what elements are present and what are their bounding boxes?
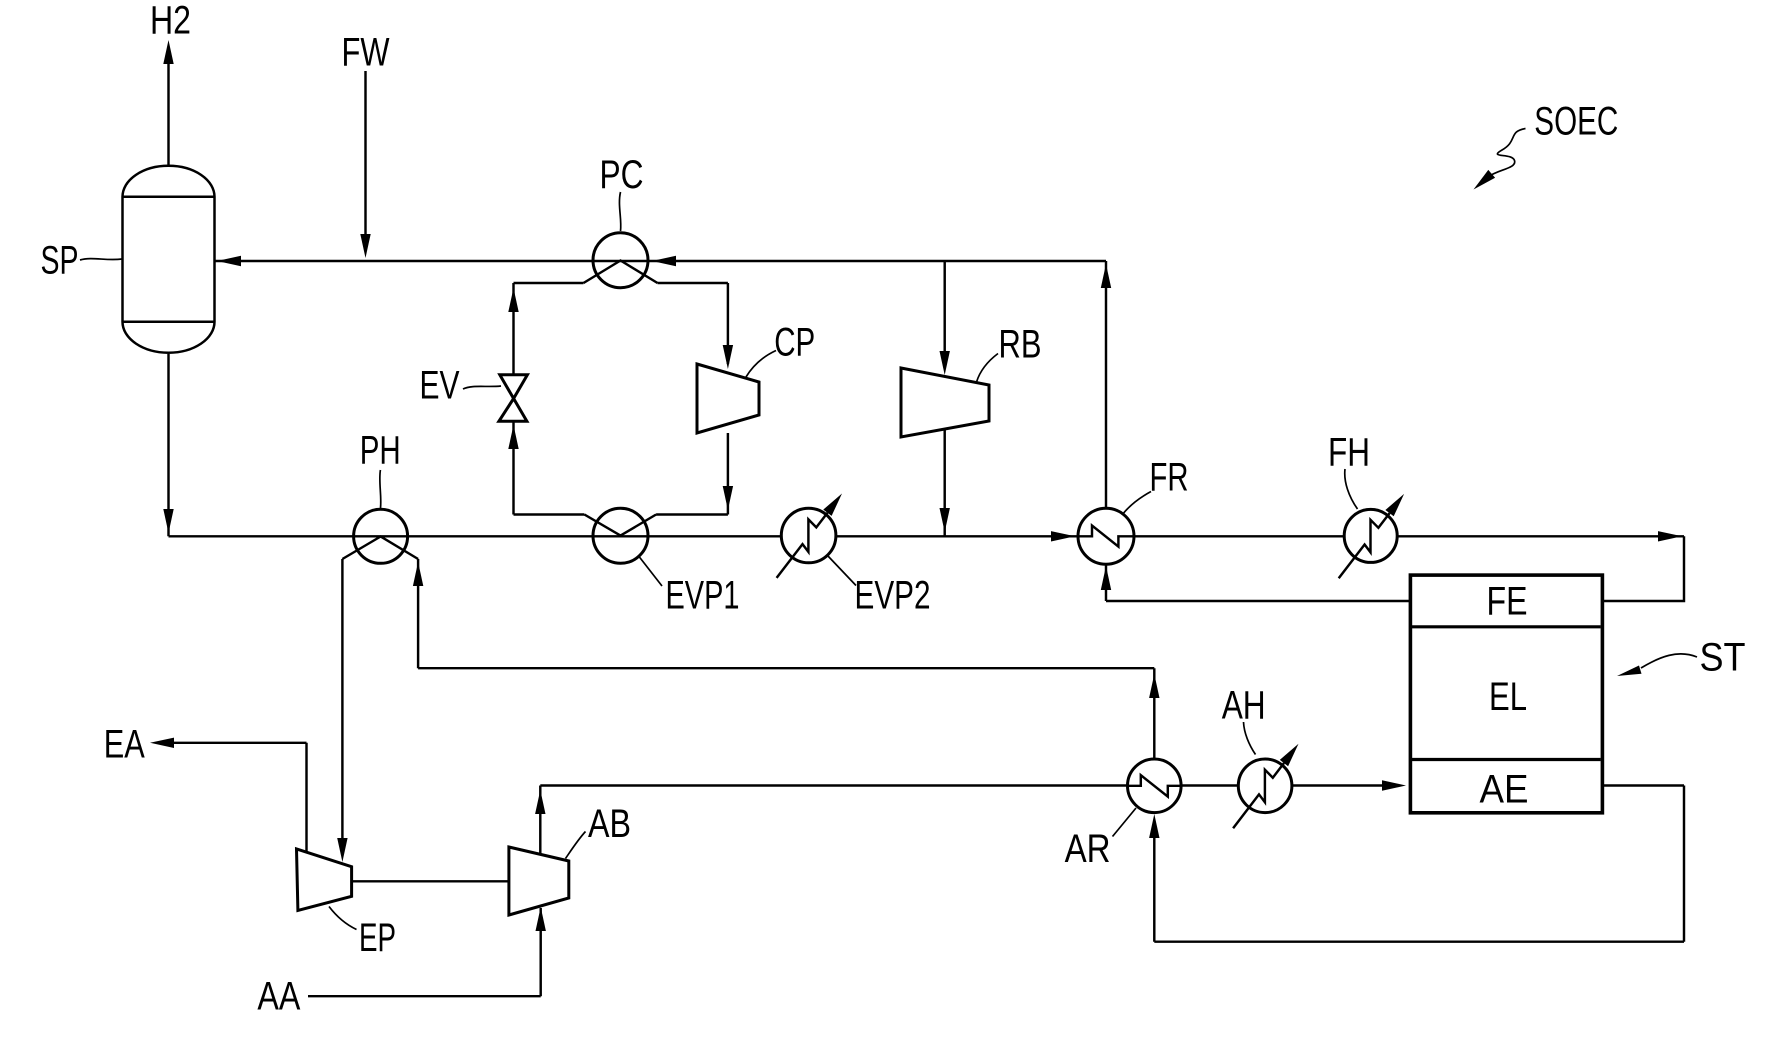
wire SP bottom outlet xyxy=(167,354,169,536)
wire exhaust riser into PH xyxy=(417,559,419,668)
leader FH xyxy=(1345,469,1358,509)
electric heater EVP2 xyxy=(781,508,836,563)
arrow into AE xyxy=(1382,780,1406,790)
leader EVP2 xyxy=(828,556,857,586)
svg-text:PH: PH xyxy=(360,429,401,473)
arrow into AR bottom xyxy=(1149,814,1159,838)
wire refrigerant loop right vertical xyxy=(727,283,729,515)
svg-text:FH: FH xyxy=(1328,431,1370,475)
heat exchanger PC xyxy=(593,233,648,288)
SOEC stack ST xyxy=(1410,575,1602,813)
heat exchanger EVP1 xyxy=(593,508,648,563)
wire exhaust horizontal y=668 xyxy=(418,667,1154,669)
svg-text:H2: H2 xyxy=(150,0,191,43)
recuperator FR xyxy=(1078,508,1134,564)
svg-text:CP: CP xyxy=(774,321,815,365)
svg-text:EVP2: EVP2 xyxy=(855,574,931,618)
svg-text:FR: FR xyxy=(1150,456,1189,500)
arrow H2 up xyxy=(163,40,173,64)
svg-text:PC: PC xyxy=(600,153,644,197)
wire bottom main steam line y=536 xyxy=(169,535,1685,537)
svg-text:EP: EP xyxy=(359,916,396,960)
arrow loop left up xyxy=(508,288,518,312)
recuperator AR xyxy=(1128,759,1182,813)
svg-text:AR: AR xyxy=(1065,827,1111,871)
arrow into PC xyxy=(652,256,676,266)
svg-text:FE: FE xyxy=(1487,580,1528,624)
wire AB outlet riser xyxy=(539,786,541,855)
recycle blower RB xyxy=(901,368,989,437)
svg-text:SOEC: SOEC xyxy=(1534,100,1618,144)
wire refrigerant loop top xyxy=(514,282,728,284)
leader FR xyxy=(1122,492,1151,516)
arrow AA into AB xyxy=(536,907,546,931)
wire AE outlet loop xyxy=(1154,786,1684,942)
wire RB branch vertical xyxy=(943,261,945,536)
svg-text:SP: SP xyxy=(41,239,79,283)
svg-text:EL: EL xyxy=(1489,675,1527,719)
svg-text:EVP1: EVP1 xyxy=(666,574,740,618)
arrow SP bottom down xyxy=(163,509,173,533)
leader AH xyxy=(1244,722,1256,755)
separator SP vessel xyxy=(123,166,215,353)
svg-text:EA: EA xyxy=(104,723,145,767)
air blower AB xyxy=(509,847,569,915)
wire FE return to FR xyxy=(1106,565,1410,601)
electric heater FH xyxy=(1344,509,1397,562)
leader CP xyxy=(746,351,776,378)
leader ST with arrow xyxy=(1641,654,1697,668)
leader EVP1 xyxy=(639,557,662,587)
arrow into EV xyxy=(508,425,518,449)
svg-text:ST: ST xyxy=(1700,636,1746,680)
wire top main line y=261 xyxy=(215,260,1106,262)
arrow into RB xyxy=(940,351,950,375)
electric heater AH xyxy=(1238,759,1292,813)
wire H2 outlet vertical xyxy=(167,64,169,166)
arrow FR riser top xyxy=(1101,264,1111,288)
svg-text:AB: AB xyxy=(588,802,631,846)
leader PC xyxy=(619,192,620,231)
wire FR top vertical xyxy=(1105,261,1107,508)
compressor CP xyxy=(697,364,759,433)
svg-text:RB: RB xyxy=(999,323,1042,367)
wire feed corner into FE xyxy=(1604,536,1684,601)
stack divider FE/EL xyxy=(1412,625,1601,628)
svg-text:AH: AH xyxy=(1222,684,1266,728)
wire refrigerant loop bottom xyxy=(514,513,728,515)
leader RB xyxy=(977,354,999,383)
leader SOEC with arrow xyxy=(1489,129,1526,177)
arrow exhaust into PH xyxy=(413,562,423,586)
svg-text:AE: AE xyxy=(1480,768,1529,812)
arrow into CP xyxy=(723,345,733,369)
leader PH xyxy=(380,470,381,508)
leader SP xyxy=(80,259,122,260)
leader EV xyxy=(463,386,501,389)
arrow into FR xyxy=(1051,531,1075,541)
wire EA outlet xyxy=(174,743,307,852)
wire air line y=785.5 xyxy=(540,784,1384,786)
wire PH to EP drop xyxy=(341,559,343,840)
arrow RB to main line xyxy=(940,508,950,532)
svg-text:EV: EV xyxy=(420,364,460,408)
arrow into SP xyxy=(217,256,241,266)
arrow FW down xyxy=(360,234,370,258)
stack divider EL/AE xyxy=(1412,758,1601,761)
wire AA inlet xyxy=(308,908,541,996)
heat exchanger PH xyxy=(354,509,408,563)
wire EP-AB shaft xyxy=(352,880,509,882)
arrow loop right down xyxy=(723,486,733,510)
wire FW feed drop xyxy=(364,71,366,236)
svg-text:FW: FW xyxy=(342,31,390,75)
leader AB xyxy=(566,832,586,859)
leader AR xyxy=(1113,808,1137,837)
expander EP xyxy=(297,849,352,911)
expansion valve EV xyxy=(500,375,528,399)
svg-text:AA: AA xyxy=(257,975,300,1019)
arrow AB outlet up xyxy=(535,790,545,814)
arrow main right end xyxy=(1658,531,1682,541)
arrow into FR bottom xyxy=(1101,566,1111,590)
arrow AR riser top xyxy=(1149,674,1159,698)
wire AR top vertical xyxy=(1153,668,1155,759)
arrow EA left xyxy=(150,738,174,748)
wire refrigerant loop left vertical xyxy=(512,283,514,515)
arrow into EP xyxy=(337,838,347,862)
leader EP xyxy=(329,907,357,930)
